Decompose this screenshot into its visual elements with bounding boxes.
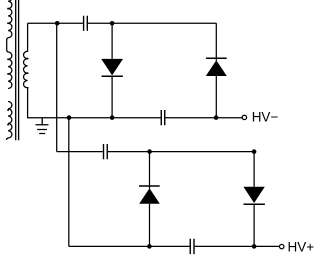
svg-text:HV+: HV+	[288, 239, 315, 254]
svg-text:HV−: HV−	[252, 110, 279, 125]
